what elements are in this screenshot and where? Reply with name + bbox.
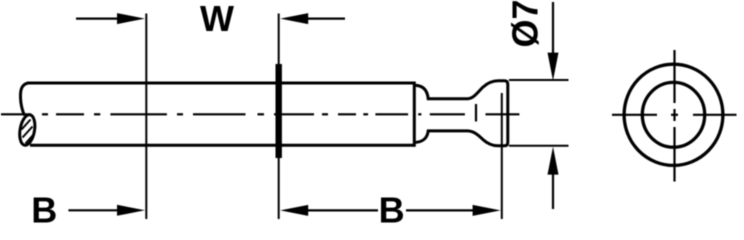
diameter 7 top arrow [552, 2, 554, 55]
diameter 7 bottom arrow [548, 147, 559, 175]
svg-text:B: B [31, 189, 57, 223]
dimension B right leader left arrow [280, 205, 308, 216]
extension line at head rim [501, 93, 503, 219]
dimension B left arrow [68, 209, 119, 211]
svg-text:Ø7: Ø7 [505, 0, 546, 48]
svg-text:B: B [379, 189, 405, 223]
extension line above groove [278, 14, 280, 66]
rod body top edge [27, 82, 414, 85]
centerline vertical tick at head sphere center [475, 104, 477, 122]
diameter 7 top extension line [509, 79, 569, 81]
rod right end step face [413, 82, 416, 147]
dimension B right leader right arrow [406, 209, 475, 211]
break cross-section ellipse [18, 114, 38, 147]
svg-text:W: W [200, 0, 234, 39]
extension line at groove left (x=146) [145, 14, 147, 220]
dimension W left arrow [76, 18, 119, 20]
break ellipse hatching [22, 120, 34, 144]
end view inner circle [642, 82, 704, 147]
groove bar on pin [276, 64, 282, 158]
end view outer circle [624, 64, 723, 165]
centerline of pin (dash-dot) [1, 113, 519, 115]
diameter 7 bottom extension line [509, 145, 569, 147]
end view vertical centerline [673, 50, 675, 182]
rod body bottom edge [30, 144, 414, 147]
extension line below groove [278, 157, 280, 219]
left break curve [20, 83, 28, 116]
end view horizontal centerline [612, 114, 737, 116]
neck and head profile [415, 81, 508, 146]
dimension W right arrow [280, 13, 308, 24]
